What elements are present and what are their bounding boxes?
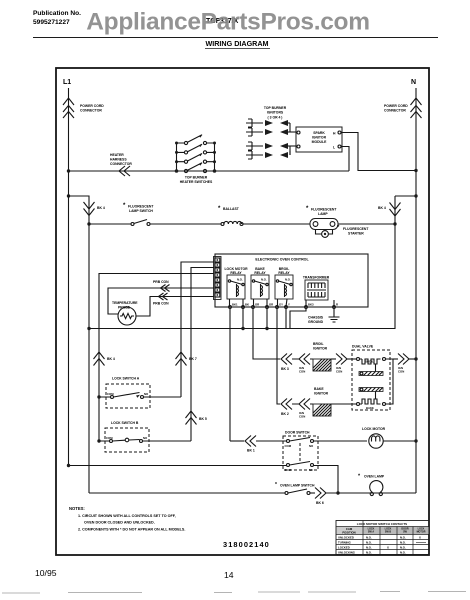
dual valve — [352, 345, 390, 411]
wire ignitor ties — [289, 123, 291, 155]
svg-text:ELECTRONIC OVEN CONTROL: ELECTRONIC OVEN CONTROL — [255, 258, 309, 262]
svg-text:CHASSIS: CHASSIS — [308, 316, 324, 320]
svg-text:N.O.: N.O. — [261, 278, 267, 282]
svg-text:R: R — [336, 303, 338, 307]
header section — [33, 9, 438, 49]
wire N stub — [395, 194, 418, 197]
wire lamp return vertical — [89, 196, 395, 329]
svg-text:LOCK SWITCH A: LOCK SWITCH A — [112, 377, 140, 381]
svg-text:UNLOCKING: UNLOCKING — [338, 551, 355, 555]
svg-text:CONNECTOR: CONNECTOR — [80, 109, 102, 113]
footer — [2, 568, 466, 593]
wire ballast to lamp — [243, 223, 310, 225]
connector BK 2 bake — [281, 399, 292, 417]
svg-text:CONNECTOR: CONNECTOR — [384, 109, 406, 113]
svg-text:IGNITOR: IGNITOR — [313, 347, 328, 351]
svg-text:N.O.: N.O. — [366, 551, 372, 555]
svg-text:TOP BURNER: TOP BURNER — [264, 106, 287, 110]
lock motor — [362, 427, 418, 448]
svg-text:N.O.: N.O. — [400, 546, 406, 550]
svg-text:BROIL: BROIL — [365, 360, 374, 364]
svg-text:BK 7: BK 7 — [189, 357, 197, 361]
svg-text:N.O.: N.O. — [400, 541, 406, 545]
svg-text:AppliancePartsPros.com: AppliancePartsPros.com — [86, 9, 369, 36]
connector BK 5 — [186, 411, 207, 425]
svg-text:TRANSFORMER: TRANSFORMER — [303, 276, 330, 280]
connector BK 7 — [176, 352, 197, 366]
svg-text:X: X — [419, 536, 421, 540]
svg-text:BK1: BK1 — [232, 303, 238, 307]
svg-text:N.O.: N.O. — [285, 278, 291, 282]
lock motor relay — [224, 267, 248, 307]
eoc input connector strip — [214, 257, 222, 300]
wire rail L1 horizontal — [89, 328, 395, 330]
svg-text:CON: CON — [299, 415, 305, 419]
svg-text:BK 1: BK 1 — [247, 449, 255, 453]
svg-text:MOTOR: MOTOR — [417, 531, 426, 534]
svg-text:BK: BK — [245, 303, 249, 307]
wire t3 broil feed — [253, 309, 280, 360]
svg-text:BK3: BK3 — [308, 303, 314, 307]
svg-text:HARNESS: HARNESS — [110, 158, 127, 162]
svg-text:BALLAST: BALLAST — [223, 207, 240, 211]
svg-text:N: N — [411, 79, 416, 86]
oven lamp — [338, 474, 416, 496]
svg-text:LAMP: LAMP — [318, 212, 328, 216]
connector BK 1 — [245, 436, 286, 453]
node branch to lamp circuit — [67, 194, 70, 197]
svg-text:N.O.: N.O. — [366, 541, 372, 545]
svg-text:TURNING: TURNING — [338, 541, 351, 545]
bake ignitor — [313, 387, 356, 416]
svg-text:COM: COM — [107, 392, 114, 396]
top burner ignitors — [246, 106, 296, 159]
wire eoc to lock com — [99, 274, 214, 442]
svg-text:1. CIRCUIT SHOWN WITH ALL CON: 1. CIRCUIT SHOWN WITH ALL CONTROLS SET T… — [78, 514, 176, 518]
svg-text:Publication No.: Publication No. — [33, 10, 81, 17]
svg-text:X: X — [387, 546, 389, 550]
svg-text:COM: COM — [285, 444, 292, 448]
wire t5 bake feed — [277, 309, 280, 405]
svg-text:CON: CON — [299, 370, 305, 374]
svg-text:FLUORESCENT: FLUORESCENT — [343, 227, 369, 231]
door switch — [283, 431, 367, 473]
wire eoc to lock B NO — [191, 268, 214, 442]
svg-text:BK 4: BK 4 — [378, 206, 386, 210]
wire t4 drop — [265, 309, 268, 331]
lock switch B — [97, 421, 191, 452]
svg-text:POWER CORD: POWER CORD — [384, 104, 408, 108]
svg-text:PROBE: PROBE — [118, 306, 131, 310]
connector BK 4 lock com — [94, 352, 115, 366]
wire lamp branch — [69, 196, 91, 493]
svg-text:OR: OR — [269, 303, 273, 307]
svg-text:N.O.: N.O. — [366, 536, 372, 540]
svg-text:HEATER: HEATER — [110, 153, 124, 157]
svg-text:POWER CORD: POWER CORD — [80, 104, 104, 108]
svg-text:BAKE: BAKE — [314, 387, 324, 391]
power cord connector L1 — [63, 98, 104, 118]
svg-text:IGNITOR: IGNITOR — [314, 392, 329, 396]
node L1 — [63, 79, 71, 86]
svg-text:NOTES:: NOTES: — [69, 506, 85, 511]
wire probe lead 2 — [136, 297, 214, 317]
svg-text:OVEN DOOR CLOSED AND UNLOCKED.: OVEN DOOR CLOSED AND UNLOCKED. — [84, 521, 155, 525]
svg-text:LAMP SWITCH: LAMP SWITCH — [129, 209, 153, 213]
svg-text:IGNITOR: IGNITOR — [312, 136, 327, 140]
border frame — [56, 68, 429, 555]
svg-text:L: L — [333, 146, 335, 150]
svg-text:RELAY: RELAY — [230, 271, 242, 275]
notes and table — [69, 506, 429, 555]
svg-text:DOOR SWITCH: DOOR SWITCH — [285, 431, 310, 435]
svg-text:N.O.: N.O. — [366, 546, 372, 550]
svg-text:MODULE: MODULE — [312, 140, 327, 144]
connector BK 3 broil — [281, 354, 292, 372]
svg-text:N.O.: N.O. — [400, 551, 406, 555]
spark ignitor module — [296, 127, 342, 152]
oven lamp switch — [89, 482, 315, 495]
connector PRB CON 1 — [153, 280, 170, 292]
svg-text:TOP BURNER: TOP BURNER — [185, 176, 208, 180]
wire lamp to N side — [338, 222, 397, 225]
connector BK 6 — [310, 488, 367, 506]
svg-text:5995271227: 5995271227 — [33, 19, 70, 26]
svg-text:L1: L1 — [63, 79, 71, 86]
svg-text:DUAL VALVE: DUAL VALVE — [352, 345, 374, 349]
heater harness connector — [110, 153, 132, 176]
svg-text:BAKE: BAKE — [366, 406, 374, 410]
wire t6 drop — [285, 309, 287, 329]
electronic oven control box — [215, 254, 368, 307]
wire transformer tap — [290, 309, 306, 329]
svg-text:GROUND: GROUND — [308, 320, 324, 324]
svg-text:N.O.: N.O. — [237, 278, 243, 282]
svg-text:*: * — [275, 482, 277, 488]
connector IGN CON broil out — [331, 354, 356, 374]
wire door nc row — [67, 464, 338, 493]
svg-text:BK 3: BK 3 — [281, 367, 289, 371]
wire t1 long drop — [229, 309, 231, 442]
svg-text:LOCK MOTOR: LOCK MOTOR — [362, 427, 386, 431]
broil ignitor — [313, 342, 331, 371]
svg-text:LOCKED: LOCKED — [338, 546, 350, 550]
wire switch to ballast — [150, 223, 221, 225]
wire N vertical — [415, 88, 417, 493]
svg-text:OVEN LAMP: OVEN LAMP — [364, 475, 385, 479]
svg-text:POSITION: POSITION — [342, 531, 355, 535]
connector IGN CON bake in — [292, 399, 313, 419]
wire t2 drop — [241, 309, 244, 331]
wire top rail y171 — [67, 169, 349, 172]
fluorescent starter — [316, 225, 370, 237]
temperature probe — [112, 301, 138, 325]
svg-text:OVEN LAMP SWITCH: OVEN LAMP SWITCH — [280, 484, 315, 488]
fluorescent lamp — [306, 206, 338, 230]
svg-text:UNLOCKED: UNLOCKED — [338, 536, 354, 540]
wire valve return — [386, 359, 394, 404]
svg-text:10/95: 10/95 — [35, 568, 57, 578]
svg-text:PRB CON: PRB CON — [153, 302, 169, 306]
connector BK 4 on lamp return — [378, 203, 401, 217]
svg-text:GY: GY — [279, 303, 283, 307]
svg-text:CON: CON — [398, 370, 404, 374]
wire module H to N — [341, 133, 418, 173]
svg-text:HEATER SWITCHES: HEATER SWITCHES — [180, 180, 213, 184]
svg-text:NC: NC — [309, 468, 313, 472]
power cord connector N — [384, 98, 422, 118]
connector PRB CON 2 — [153, 293, 169, 306]
svg-text:SW B: SW B — [385, 531, 392, 534]
svg-text:BK 2: BK 2 — [281, 412, 289, 416]
svg-text:CON: CON — [336, 370, 342, 374]
connector IGN CON broil in — [292, 354, 313, 374]
wire t1 to door switch — [230, 440, 244, 442]
bake relay — [251, 267, 269, 307]
svg-text:BK 4: BK 4 — [97, 206, 105, 210]
svg-text:CONNECTOR: CONNECTOR — [110, 162, 132, 166]
svg-text:2. COMPONENTS WITH * DO NOT A: 2. COMPONENTS WITH * DO NOT APPEAR ON AL… — [78, 528, 185, 532]
svg-text:318002140: 318002140 — [223, 540, 270, 549]
svg-text:IGNITORS: IGNITORS — [267, 111, 284, 115]
svg-text:FLUORESCENT: FLUORESCENT — [128, 205, 154, 209]
lock motor switch contacts table — [336, 521, 429, 555]
svg-text:N.O.: N.O. — [400, 536, 406, 540]
svg-text:PRB CON: PRB CON — [153, 280, 169, 284]
svg-text:SW A: SW A — [368, 531, 374, 534]
wire L1 vertical — [68, 88, 70, 467]
svg-text:OR: OR — [255, 303, 259, 307]
svg-text:SPARK: SPARK — [313, 131, 325, 135]
connector BK 4 — [84, 202, 105, 216]
svg-text:LOCK MOTOR SWITCH CONTACTS: LOCK MOTOR SWITCH CONTACTS — [357, 522, 407, 526]
wire module L to rail — [341, 147, 349, 172]
wire eoc to lock A NO — [181, 262, 214, 397]
svg-text:LOCK SWITCH B: LOCK SWITCH B — [111, 421, 139, 425]
svg-text:BK 4: BK 4 — [107, 357, 115, 361]
svg-text:TEMPERATURE: TEMPERATURE — [112, 301, 138, 305]
svg-text:COM: COM — [285, 468, 292, 472]
svg-text:BK 6: BK 6 — [316, 501, 324, 505]
broil relay — [275, 267, 293, 307]
svg-text:( 3 OR 4 ): ( 3 OR 4 ) — [268, 116, 283, 120]
svg-text:COM: COM — [106, 436, 113, 440]
connector IGN CON to N — [393, 354, 418, 374]
svg-text:14: 14 — [224, 570, 234, 580]
svg-text:BROIL: BROIL — [313, 342, 324, 346]
eoc terminals — [229, 303, 338, 309]
svg-text:STARTER: STARTER — [348, 232, 364, 236]
node N — [411, 79, 416, 86]
svg-text:BK 5: BK 5 — [199, 417, 207, 421]
chassis ground — [308, 309, 340, 325]
svg-text:FLUORESCENT: FLUORESCENT — [311, 208, 337, 212]
svg-text:Y: Y — [288, 303, 290, 307]
svg-text:RELAY: RELAY — [254, 271, 266, 275]
ballast — [218, 206, 243, 226]
wire probe lead 1 — [108, 288, 214, 314]
top burner heater switches — [175, 135, 217, 184]
fluorescent lamp switch — [89, 203, 154, 226]
svg-text:RELAY: RELAY — [278, 271, 290, 275]
svg-text:WIRING DIAGRAM: WIRING DIAGRAM — [205, 39, 268, 48]
lock switch A — [97, 377, 181, 409]
transformer — [303, 276, 334, 307]
